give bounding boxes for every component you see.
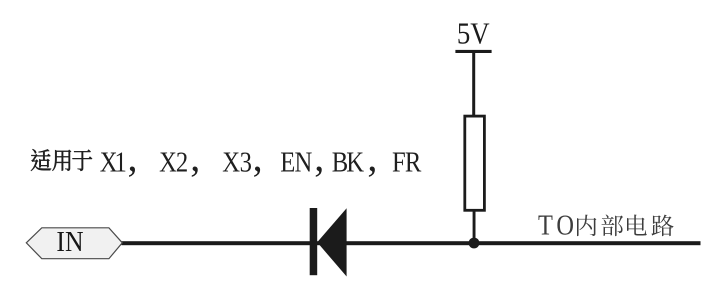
svg-text:3: 3 <box>240 146 252 178</box>
svg-text:R: R <box>405 146 421 178</box>
annotation text 适 <box>31 149 51 171</box>
net label 部 <box>601 215 623 237</box>
diode cathode bar <box>310 208 318 275</box>
net label 内 <box>577 215 596 236</box>
svg-text:,: , <box>314 135 324 180</box>
main horizontal wire IN to internal circuit <box>122 241 701 245</box>
diode anode triangle <box>317 208 346 276</box>
resistor (pull-up) <box>465 116 485 210</box>
svg-text:2: 2 <box>176 146 188 178</box>
svg-text:,: , <box>367 135 377 180</box>
svg-text:K: K <box>346 146 364 178</box>
svg-text:,: , <box>190 135 200 180</box>
svg-text:E: E <box>280 146 295 178</box>
wire from 5V bar to resistor <box>472 52 475 117</box>
power rail 5V bar <box>455 50 491 53</box>
net label 电 <box>627 215 647 236</box>
connector port IN outline <box>26 228 122 259</box>
junction node (wire/resistor) <box>469 238 480 249</box>
svg-text:N: N <box>294 146 312 178</box>
wire from resistor to junction <box>473 212 476 244</box>
svg-text:T: T <box>538 210 553 241</box>
svg-text:1: 1 <box>115 146 127 178</box>
svg-text:IN: IN <box>56 226 83 257</box>
svg-text:,: , <box>253 135 263 180</box>
svg-text:F: F <box>392 146 406 178</box>
svg-text:X: X <box>222 146 240 178</box>
svg-text:X: X <box>159 146 177 178</box>
net label 路 <box>652 215 674 237</box>
svg-text:5V: 5V <box>457 17 490 51</box>
annotation text 于 <box>72 150 92 171</box>
svg-text:O: O <box>556 210 574 241</box>
svg-text:,: , <box>127 135 137 180</box>
annotation text 用 <box>52 150 71 171</box>
